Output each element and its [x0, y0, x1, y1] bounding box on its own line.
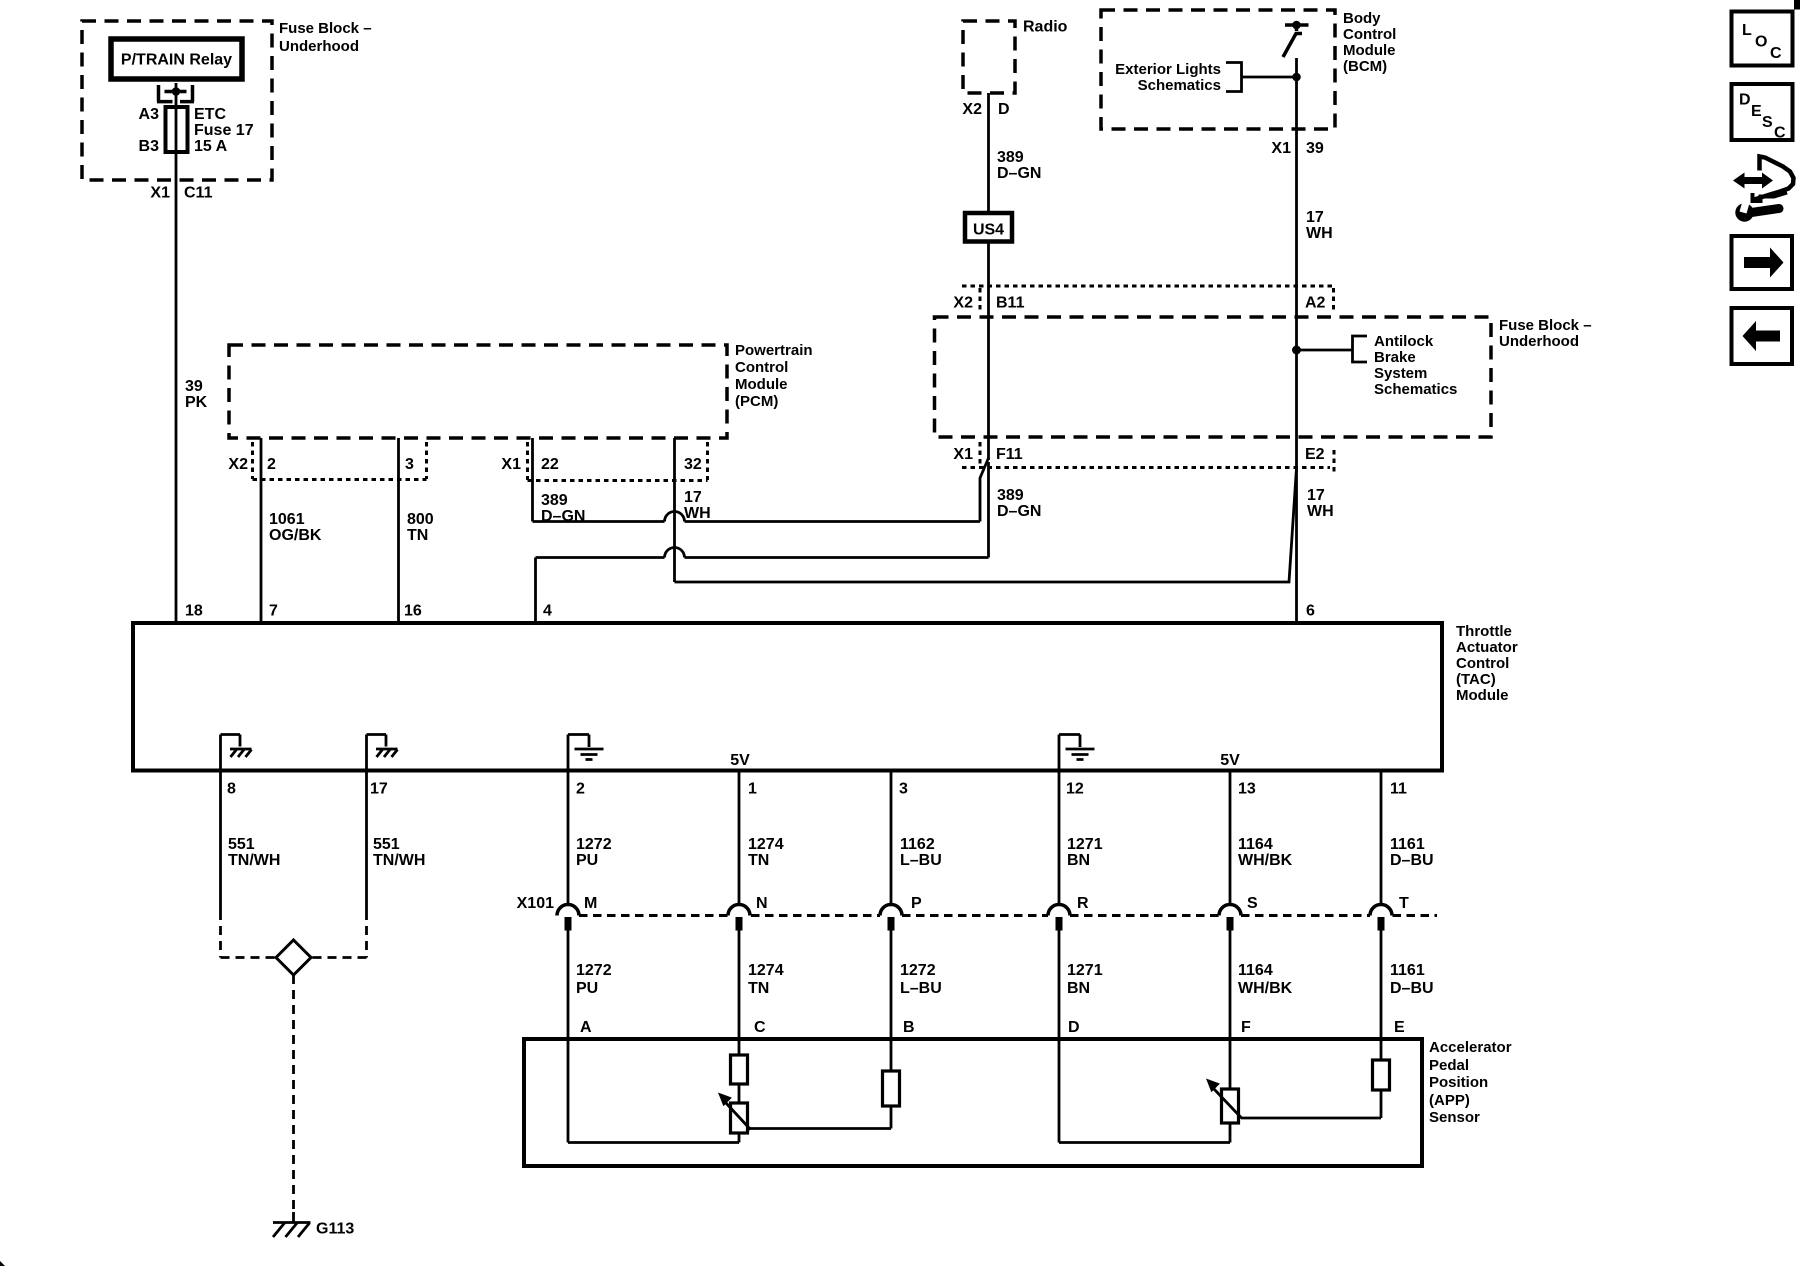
svg-text:X2: X2: [228, 456, 248, 473]
wire X101 T to APP E: [1380, 931, 1383, 1061]
svg-text:Module: Module: [735, 376, 788, 393]
svg-text:1274: 1274: [748, 962, 784, 979]
svg-text:WH/BK: WH/BK: [1238, 980, 1293, 997]
svg-text:17: 17: [1307, 487, 1325, 504]
wire TAC 13 upper 1164 WH/BK: [1229, 770, 1232, 905]
wire label 551 TN/WH pin8: [228, 836, 280, 869]
svg-text:BN: BN: [1067, 980, 1090, 997]
PCM connector labels X1 22 32: [501, 456, 701, 473]
svg-text:Throttle: Throttle: [1456, 623, 1512, 640]
resistor R2 pot1 fixed (pin B): [883, 1071, 900, 1129]
wire label 800 TN: [407, 511, 434, 544]
svg-text:13: 13: [1238, 781, 1256, 798]
X101 pin S arc and terminal: [1219, 905, 1241, 931]
svg-text:X1: X1: [501, 456, 521, 473]
radio dashed box: [963, 21, 1015, 93]
connector strip X1 F11 E2: [962, 442, 1334, 474]
svg-text:17: 17: [370, 781, 388, 798]
svg-text:S: S: [1762, 114, 1773, 131]
svg-text:1272: 1272: [900, 962, 936, 979]
svg-text:TN/WH: TN/WH: [373, 852, 425, 869]
svg-text:C: C: [1774, 125, 1786, 142]
lower wire labels row: [576, 962, 1434, 997]
svg-text:C: C: [754, 1019, 766, 1036]
wire pot2 tap to E: [1241, 1117, 1381, 1120]
pin 7 label: [269, 603, 278, 620]
5V label left: [730, 752, 750, 769]
svg-text:(BCM): (BCM): [1343, 58, 1387, 75]
PCM connector X1 strip: [528, 442, 708, 481]
fuse terminal labels A3 B3: [139, 106, 160, 155]
svg-text:US4: US4: [973, 222, 1004, 239]
G113 label: [316, 1221, 354, 1238]
svg-text:Schematics: Schematics: [1374, 381, 1457, 398]
radio label: [1023, 19, 1068, 36]
svg-text:Antilock: Antilock: [1374, 333, 1434, 350]
upper wire labels row: [576, 836, 1434, 869]
svg-text:Actuator: Actuator: [1456, 639, 1518, 656]
svg-text:B: B: [903, 1019, 915, 1036]
connector X1 C11 labels: [150, 185, 212, 202]
svg-text:Radio: Radio: [1023, 19, 1068, 36]
svg-text:17: 17: [1306, 209, 1324, 226]
svg-text:Pedal: Pedal: [1429, 1057, 1469, 1074]
wire X101 S to APP F: [1229, 931, 1232, 1090]
wire TAC 8 551 TN/WH: [219, 770, 222, 911]
X101 pin N arc and terminal: [728, 905, 750, 931]
svg-text:D: D: [1068, 1019, 1080, 1036]
svg-text:G113: G113: [316, 1221, 354, 1238]
wire TAC 12 upper 1271 BN: [1058, 770, 1061, 905]
svg-text:39: 39: [1306, 140, 1324, 157]
svg-text:A3: A3: [139, 106, 160, 123]
wire label 17 WH bcm: [1306, 209, 1333, 242]
svg-text:R: R: [1077, 895, 1089, 912]
svg-text:TN: TN: [407, 527, 428, 544]
svg-text:A2: A2: [1305, 295, 1326, 312]
junction dot BCM: [1292, 73, 1301, 82]
svg-text:1: 1: [748, 781, 757, 798]
powertrain control module (PCM) dashed box: [229, 345, 727, 438]
svg-text:PU: PU: [576, 852, 598, 869]
X101 label: [517, 895, 554, 912]
BCM switch junction dot: [1292, 21, 1301, 30]
svg-text:F: F: [1241, 1019, 1251, 1036]
connector X2 D labels: [962, 101, 1009, 118]
svg-text:1272: 1272: [576, 836, 612, 853]
pin 18 label: [185, 603, 203, 620]
svg-text:Control: Control: [1456, 655, 1509, 672]
svg-text:Module: Module: [1343, 42, 1396, 59]
resistor R1 pot1 fixed (pin C): [731, 1055, 748, 1103]
svg-text:WH: WH: [684, 505, 711, 522]
ground symbol TAC pin 12 earth: [1059, 735, 1095, 771]
wire TAC 17 551 TN/WH: [365, 770, 368, 911]
svg-text:1271: 1271: [1067, 836, 1103, 853]
svg-text:1162: 1162: [900, 836, 935, 853]
wire label 389 D-GN: [541, 492, 585, 525]
svg-text:S: S: [1247, 895, 1258, 912]
relay K1 P/TRAIN Relay: [111, 39, 242, 79]
X101 pin M arc and terminal: [557, 905, 579, 931]
PCM connector labels X2 2 3: [228, 456, 414, 473]
PCM label: [735, 342, 813, 410]
antilock brake system schematics label: [1374, 333, 1457, 398]
wire junction to ABS bracket: [1297, 349, 1353, 352]
wire TAC 2 upper 1272 PU: [567, 770, 570, 905]
svg-text:TN: TN: [748, 980, 769, 997]
svg-text:Body: Body: [1343, 10, 1381, 27]
svg-text:12: 12: [1066, 781, 1084, 798]
fuse block underhood (left) dashed box: [82, 21, 272, 180]
relay contact cup terminal: [157, 85, 194, 102]
svg-text:B3: B3: [139, 138, 160, 155]
svg-text:389: 389: [997, 487, 1024, 504]
wire US4 to B11 to F11: [987, 242, 990, 461]
wire APP D to pot2 bottom: [1059, 1123, 1230, 1143]
svg-text:1272: 1272: [576, 962, 612, 979]
X101 connector dashed line: [579, 914, 1437, 917]
5V label right: [1220, 752, 1240, 769]
svg-text:1161: 1161: [1390, 962, 1425, 979]
svg-text:Exterior Lights: Exterior Lights: [1115, 61, 1221, 78]
nav icon LOC: [1732, 12, 1793, 66]
fuse block underhood (right) label: [1499, 317, 1592, 350]
svg-text:3: 3: [899, 781, 908, 798]
BCM label: [1343, 10, 1396, 75]
nav icon wrench: [1735, 200, 1779, 222]
svg-text:5V: 5V: [1220, 752, 1240, 769]
svg-text:D–BU: D–BU: [1390, 980, 1434, 997]
ground symbol TAC pin 2 earth: [568, 735, 604, 771]
svg-text:5V: 5V: [730, 752, 750, 769]
svg-text:C11: C11: [184, 185, 213, 202]
svg-text:PU: PU: [576, 980, 598, 997]
svg-text:M: M: [584, 895, 597, 912]
svg-text:551: 551: [228, 836, 255, 853]
body control module (BCM) dashed box: [1101, 10, 1335, 129]
BCM switch: [1283, 25, 1309, 57]
ground symbol TAC pin 17 chassis: [367, 735, 398, 771]
connector strip X2 B11 A2: [962, 286, 1334, 312]
exterior lights bracket: [1226, 63, 1242, 92]
svg-text:(APP): (APP): [1429, 1092, 1470, 1109]
svg-text:L: L: [1742, 22, 1752, 39]
svg-text:11: 11: [1390, 781, 1407, 798]
svg-text:(TAC): (TAC): [1456, 671, 1496, 688]
svg-text:32: 32: [684, 456, 702, 473]
wire label 17 WH e2: [1307, 487, 1334, 520]
wire label 389 D-GN radio: [997, 149, 1041, 182]
svg-text:WH: WH: [1306, 225, 1333, 242]
nav icon forward arrow: [1732, 236, 1793, 289]
wire TAC 3 upper 1162 L-BU: [890, 770, 893, 905]
svg-text:1271: 1271: [1067, 962, 1103, 979]
svg-text:E2: E2: [1305, 446, 1325, 463]
svg-text:2: 2: [576, 781, 585, 798]
svg-text:B11: B11: [996, 295, 1025, 312]
svg-text:X1: X1: [953, 446, 973, 463]
svg-text:389: 389: [997, 149, 1024, 166]
svg-text:System: System: [1374, 365, 1427, 382]
APP sensor label: [1429, 1039, 1512, 1126]
wire X101 R to APP D: [1058, 931, 1061, 1143]
svg-text:O: O: [1755, 34, 1767, 51]
fuse F17 ETC Fuse 17 15 A: [166, 107, 188, 152]
svg-text:PK: PK: [185, 394, 208, 411]
svg-text:F11: F11: [996, 446, 1023, 463]
page corner mark top right: [1794, 0, 1800, 10]
page corner mark bottom left: [0, 1261, 5, 1266]
svg-text:E: E: [1751, 103, 1762, 120]
svg-text:1274: 1274: [748, 836, 784, 853]
svg-text:22: 22: [541, 456, 559, 473]
fuse block underhood (left) label: [279, 20, 372, 55]
svg-text:1164: 1164: [1238, 836, 1273, 853]
antilock brake bracket: [1353, 336, 1368, 362]
svg-text:800: 800: [407, 511, 434, 528]
svg-text:TN/WH: TN/WH: [228, 852, 280, 869]
svg-text:Powertrain: Powertrain: [735, 342, 813, 359]
svg-text:18: 18: [185, 603, 203, 620]
wire label 1061 OG/BK: [269, 511, 322, 544]
X101 pin T arc and terminal: [1370, 905, 1392, 931]
svg-text:P/TRAIN Relay: P/TRAIN Relay: [121, 52, 232, 69]
wire X101 P to APP B: [890, 931, 893, 1072]
bottom pin number labels: [227, 781, 1407, 798]
svg-text:L–BU: L–BU: [900, 852, 942, 869]
wire TAC 4 to F11: [536, 462, 989, 623]
svg-text:389: 389: [541, 492, 568, 509]
svg-text:C: C: [1770, 45, 1782, 62]
wire label 39 PK: [185, 378, 208, 411]
svg-text:WH: WH: [1307, 503, 1334, 520]
wire X101 M to APP A: [567, 931, 570, 1143]
wire pot1 tap to B: [749, 1127, 891, 1130]
svg-text:X101: X101: [517, 895, 554, 912]
fuse block underhood (right) dashed box: [935, 317, 1492, 437]
wire relay to fuse: [175, 83, 178, 108]
dashed wire pin 8 to splice: [221, 911, 277, 958]
pin 6 label: [1306, 603, 1315, 620]
X101 pin R arc and terminal: [1048, 905, 1070, 931]
svg-text:D–GN: D–GN: [997, 503, 1041, 520]
svg-text:Brake: Brake: [1374, 349, 1416, 366]
wire APP A to pot1 bottom: [568, 1133, 739, 1143]
wire PCM 32 to E2 17 WH: [675, 438, 1297, 582]
wire BCM 39 to TAC 6 17 WH: [1295, 58, 1298, 623]
svg-text:Module: Module: [1456, 687, 1509, 704]
wire TAC 11 upper 1161 D-BU: [1380, 770, 1383, 905]
relay contact junction dot: [172, 87, 181, 96]
wire radio to US4: [987, 93, 990, 213]
svg-text:Control: Control: [735, 359, 788, 376]
wire PCM 22 to F11 389 D-GN: [533, 438, 989, 522]
svg-text:7: 7: [269, 603, 278, 620]
ground G113 chassis: [273, 1223, 311, 1238]
svg-text:Control: Control: [1343, 26, 1396, 43]
svg-text:X2: X2: [962, 101, 982, 118]
svg-text:2: 2: [267, 456, 276, 473]
svg-text:Sensor: Sensor: [1429, 1109, 1480, 1126]
fuse US4: [965, 213, 1012, 242]
junction dot A2 wire: [1292, 346, 1301, 355]
svg-text:(PCM): (PCM): [735, 393, 778, 410]
svg-text:Schematics: Schematics: [1138, 77, 1221, 94]
splice diamond: [276, 940, 311, 975]
svg-text:ETC: ETC: [194, 106, 226, 123]
connector labels X1 F11 E2: [953, 446, 1324, 463]
throttle actuator control (TAC) module box: [133, 623, 1442, 771]
fuse value label ETC Fuse 17 15 A: [194, 106, 254, 155]
pin 4 label: [543, 603, 552, 620]
wire PCM 3 to TAC 16: [397, 438, 400, 623]
nav icon compare arrows: [1733, 157, 1794, 202]
wire label 551 TN/WH pin17: [373, 836, 425, 869]
svg-text:1061: 1061: [269, 511, 305, 528]
svg-text:551: 551: [373, 836, 400, 853]
svg-text:15 A: 15 A: [194, 138, 228, 155]
svg-text:WH/BK: WH/BK: [1238, 852, 1293, 869]
svg-text:X2: X2: [953, 295, 973, 312]
wire PCM 2 to TAC 7: [260, 438, 263, 623]
connector labels X2 B11 A2: [953, 295, 1325, 312]
connector X1 39 labels: [1271, 140, 1323, 157]
svg-text:Fuse Block –: Fuse Block –: [1499, 317, 1592, 334]
svg-text:Position: Position: [1429, 1074, 1488, 1091]
svg-text:D: D: [1739, 92, 1751, 109]
svg-text:L–BU: L–BU: [900, 980, 942, 997]
ground symbol TAC pin 8 chassis: [221, 735, 252, 771]
svg-text:17: 17: [684, 489, 702, 506]
potentiometer wiper pot1: [718, 1093, 751, 1134]
svg-text:D: D: [998, 101, 1010, 118]
svg-text:8: 8: [227, 781, 236, 798]
nav icon back arrow: [1732, 308, 1793, 364]
wire fuse to TAC pin 18: [175, 152, 178, 623]
APP pin letters A C B D F E: [580, 1019, 1405, 1036]
svg-text:P: P: [911, 895, 922, 912]
svg-text:6: 6: [1306, 603, 1315, 620]
svg-text:1161: 1161: [1390, 836, 1425, 853]
accelerator pedal position (APP) sensor box: [524, 1039, 1422, 1166]
svg-text:BN: BN: [1067, 852, 1090, 869]
svg-text:E: E: [1394, 1019, 1405, 1036]
svg-text:Underhood: Underhood: [1499, 333, 1579, 350]
dashed wire pin 17 to splice: [311, 911, 367, 958]
svg-text:TN: TN: [748, 852, 769, 869]
X101 pin letters M N P R S T: [584, 895, 1409, 912]
wire TAC 1 upper 1274 TN: [738, 770, 741, 905]
nav icon DESC: [1732, 84, 1793, 142]
svg-text:X1: X1: [150, 185, 170, 202]
svg-text:T: T: [1399, 895, 1409, 912]
resistor R3 pot2 fixed (pin E): [1373, 1060, 1390, 1118]
svg-text:OG/BK: OG/BK: [269, 527, 322, 544]
wire label 389 D-GN f11: [997, 487, 1041, 520]
svg-text:Underhood: Underhood: [279, 38, 359, 55]
wire X101 N to APP C: [738, 931, 741, 1056]
svg-text:D–GN: D–GN: [997, 165, 1041, 182]
pin 16 label: [404, 603, 422, 620]
potentiometer wiper pot2: [1206, 1079, 1242, 1124]
PCM connector X2 strip: [253, 442, 427, 480]
svg-text:4: 4: [543, 603, 552, 620]
svg-text:D–BU: D–BU: [1390, 852, 1434, 869]
svg-text:Fuse Block –: Fuse Block –: [279, 20, 372, 37]
TAC module label: [1456, 623, 1518, 704]
svg-text:A: A: [580, 1019, 592, 1036]
svg-text:D–GN: D–GN: [541, 508, 585, 525]
svg-text:3: 3: [405, 456, 414, 473]
exterior lights schematics label: [1115, 61, 1221, 94]
svg-text:1164: 1164: [1238, 962, 1273, 979]
wire bracket to switch: [1242, 76, 1297, 79]
dashed wire splice to G113: [292, 975, 295, 1222]
wire label 17 WH: [684, 489, 711, 522]
svg-text:N: N: [756, 895, 768, 912]
svg-text:39: 39: [185, 378, 203, 395]
svg-text:Accelerator: Accelerator: [1429, 1039, 1512, 1056]
svg-text:X1: X1: [1271, 140, 1291, 157]
svg-text:16: 16: [404, 603, 422, 620]
svg-text:Fuse 17: Fuse 17: [194, 122, 254, 139]
X101 pin P arc and terminal: [880, 905, 902, 931]
